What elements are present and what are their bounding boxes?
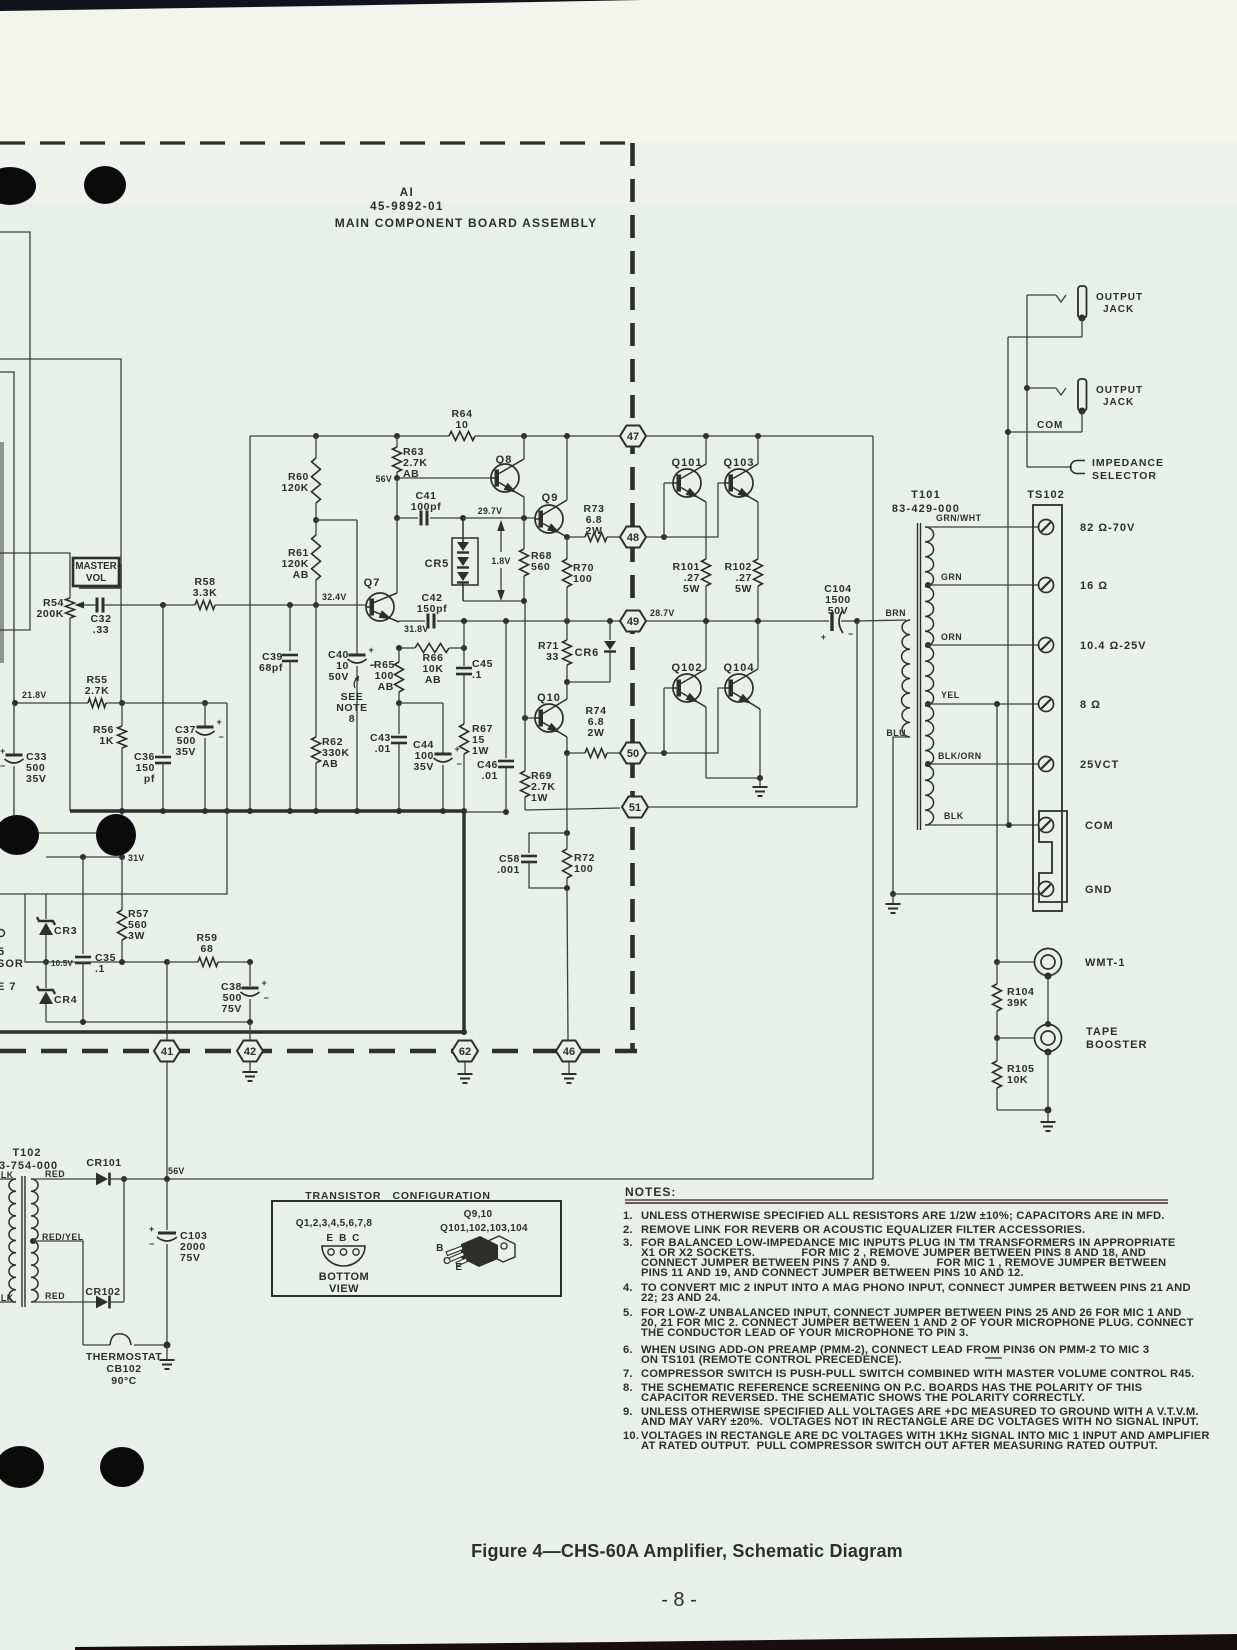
svg-text:51: 51 xyxy=(629,802,641,814)
resistor R71 xyxy=(538,621,572,682)
svg-text:Q10: Q10 xyxy=(537,692,561,704)
jack tape booster xyxy=(997,1025,1147,1056)
wire tap YEL xyxy=(925,690,1038,707)
svg-text:45-9892-01: 45-9892-01 xyxy=(370,201,444,213)
svg-text:CR5: CR5 xyxy=(425,558,449,570)
note 6. xyxy=(623,1344,1149,1366)
A1 board dashed outline top xyxy=(0,141,632,144)
note 10. xyxy=(623,1430,1210,1452)
note 7. xyxy=(623,1368,1194,1380)
capacitor C43 xyxy=(370,703,407,811)
svg-text:CR3: CR3 xyxy=(54,925,77,937)
svg-text:T102: T102 xyxy=(12,1147,41,1159)
svg-text:COM: COM xyxy=(1085,820,1114,832)
capacitor C41 xyxy=(397,490,463,526)
label T102 leads xyxy=(0,1169,84,1303)
A1 board dashed outline bottom xyxy=(0,1049,637,1054)
connector hex 49 xyxy=(620,608,675,632)
wire 28.7V line right xyxy=(646,618,829,624)
capacitor C104 xyxy=(821,583,854,642)
svg-text:46: 46 xyxy=(563,1046,575,1058)
svg-text:AI: AI xyxy=(400,187,415,199)
diode network CR5 xyxy=(425,518,478,601)
wire rectifier join xyxy=(123,1179,125,1302)
svg-text:Q101,102,103,104: Q101,102,103,104 xyxy=(440,1223,528,1234)
svg-text:JACK: JACK xyxy=(1103,397,1134,408)
resistor R73 xyxy=(567,503,620,542)
svg-text:48: 48 xyxy=(627,532,639,544)
TO-220 package drawing xyxy=(446,1236,515,1267)
label 32.4V node xyxy=(322,592,347,602)
svg-text:GRN: GRN xyxy=(941,572,962,582)
label transistor configuration xyxy=(305,1190,491,1202)
svg-text:Q101: Q101 xyxy=(672,457,703,469)
svg-text:BOOSTER: BOOSTER xyxy=(1086,1039,1147,1051)
svg-text:B: B xyxy=(339,1233,347,1244)
page number xyxy=(661,1589,697,1611)
wire tap GRN xyxy=(925,572,1038,588)
wire jack common vertical xyxy=(1005,337,1011,825)
wire C41 to Q9 base xyxy=(460,506,535,521)
wire jack tip bus xyxy=(1024,295,1030,467)
wire Q101 emitter xyxy=(681,488,706,560)
transistor Q101 xyxy=(672,457,703,497)
wire Q102 collector xyxy=(681,621,706,684)
wire Q102 emitter xyxy=(681,693,760,779)
wire Q10 base xyxy=(522,715,535,721)
connector hex 50 xyxy=(620,743,646,764)
wire Q9 collector xyxy=(543,436,567,515)
svg-text:3.3K: 3.3K xyxy=(193,587,218,599)
output jack 2 xyxy=(1008,379,1143,432)
svg-text:8.: 8. xyxy=(623,1382,633,1394)
wire master vol signal line xyxy=(103,602,195,608)
svg-text:RED: RED xyxy=(45,1291,65,1301)
label see note 8 xyxy=(336,676,368,725)
svg-text:E 7: E 7 xyxy=(0,981,17,993)
svg-text:21.8V: 21.8V xyxy=(22,690,47,700)
resistor R61 xyxy=(281,520,320,605)
transformer T101 primary xyxy=(885,608,910,738)
wire 62V line xyxy=(25,959,170,965)
svg-text:CR6: CR6 xyxy=(575,647,599,659)
svg-text:2W: 2W xyxy=(586,525,603,537)
connector hex 48 xyxy=(620,527,646,548)
svg-text:Q102: Q102 xyxy=(672,662,703,674)
wire BLU lead xyxy=(893,737,910,894)
svg-text:3.: 3. xyxy=(623,1237,633,1249)
resistor R70 xyxy=(563,537,595,621)
capacitor C103 xyxy=(149,1179,208,1345)
svg-text:UNLESS OTHERWISE SPECIFIED ALL: UNLESS OTHERWISE SPECIFIED ALL RESISTORS… xyxy=(641,1210,1165,1222)
svg-text:10: 10 xyxy=(456,419,469,431)
wire WMT to booster xyxy=(1045,976,1051,1027)
note 9. xyxy=(623,1406,1199,1428)
wire ground return under holes xyxy=(14,811,122,833)
resistor R62 xyxy=(312,605,350,811)
caption figure title xyxy=(471,1541,903,1561)
transformer T102 primary xyxy=(0,1179,16,1302)
label Q1-8 group xyxy=(296,1218,373,1229)
svg-text:−: − xyxy=(219,732,224,742)
wire hex48 to output bases xyxy=(646,483,725,540)
svg-text:47: 47 xyxy=(627,431,639,443)
svg-text:GRN/WHT: GRN/WHT xyxy=(936,513,982,523)
svg-text:ON TS101 (REMOTE CONTROL PRECE: ON TS101 (REMOTE CONTROL PRECEDENCE). xyxy=(641,1354,902,1366)
label A1 assembly title xyxy=(335,187,598,230)
svg-text:50: 50 xyxy=(627,748,639,760)
zener diode CR3 xyxy=(37,894,77,962)
label compressor fragment xyxy=(0,930,24,994)
node 10.5V xyxy=(43,959,73,968)
potentiometer R54 xyxy=(36,597,96,811)
resistor R68 xyxy=(520,518,553,601)
black scan edge bottom xyxy=(75,1634,1237,1650)
resistor R105 xyxy=(993,1038,1035,1110)
resistor R57 xyxy=(118,857,150,962)
terminal 25VCT xyxy=(1039,757,1120,772)
svg-text:OUTPUT: OUTPUT xyxy=(1096,385,1143,396)
svg-text:IMPEDANCE: IMPEDANCE xyxy=(1092,457,1164,469)
svg-text:B: B xyxy=(436,1243,444,1254)
svg-text:8: 8 xyxy=(349,713,355,725)
wire Q7 emitter xyxy=(374,610,399,622)
impedance selector xyxy=(1027,457,1164,482)
svg-text:Figure 4—CHS-60A Amplifier, Sc: Figure 4—CHS-60A Amplifier, Schematic Di… xyxy=(471,1541,903,1561)
wire ground bus heavy vertical xyxy=(462,811,465,1032)
svg-text:2.7K: 2.7K xyxy=(85,685,110,697)
svg-text:MASTER: MASTER xyxy=(75,561,116,572)
svg-text:SELECTOR: SELECTOR xyxy=(1092,470,1157,482)
diode CR6 xyxy=(567,621,616,682)
svg-text:100: 100 xyxy=(574,863,593,875)
svg-text:ORN: ORN xyxy=(941,632,962,642)
wire left fragment to R54 line xyxy=(0,359,121,703)
wire speaker divider xyxy=(994,704,1034,965)
punch hole row2 left xyxy=(0,815,39,855)
node R60 R61 junction xyxy=(313,517,357,523)
svg-text:OUTPUT: OUTPUT xyxy=(1096,292,1143,303)
svg-text:50V: 50V xyxy=(828,605,848,617)
svg-text:1W: 1W xyxy=(472,745,489,757)
svg-text:AB: AB xyxy=(378,681,394,693)
wire tap GRN/WHT xyxy=(925,513,1038,527)
svg-text:YEL: YEL xyxy=(941,690,960,700)
wire T102 center tap xyxy=(30,1238,83,1345)
svg-text:100: 100 xyxy=(573,573,592,585)
svg-text:AB: AB xyxy=(425,674,441,686)
note 6 PIN36 underline xyxy=(985,1357,1002,1359)
wire ground bus heavy bottom xyxy=(0,1029,467,1035)
transformer T102 secondary xyxy=(31,1179,96,1302)
connector hex 41 xyxy=(154,962,180,1179)
svg-text:.1: .1 xyxy=(472,669,482,681)
transistor Q104 xyxy=(724,662,755,702)
svg-text:100pf: 100pf xyxy=(411,501,441,513)
wire 28.7V line left xyxy=(437,618,620,624)
svg-text:5W: 5W xyxy=(735,583,752,595)
svg-text:1.8V: 1.8V xyxy=(491,556,510,566)
svg-text:RED: RED xyxy=(45,1169,65,1179)
wire ground bus heavy xyxy=(70,808,467,814)
transformer T102 core xyxy=(22,1176,25,1307)
wire Q7 collector xyxy=(374,518,397,603)
wire driver bias chain xyxy=(524,601,526,718)
jack WMT-1 xyxy=(1035,949,1126,980)
wire compressor return xyxy=(0,811,227,894)
wire 56V supply line xyxy=(121,1166,873,1182)
note 2. xyxy=(623,1224,1085,1236)
wire tap BLK/ORN xyxy=(925,751,1038,767)
wire feedback drop xyxy=(872,436,874,1179)
svg-text:90°C: 90°C xyxy=(111,1375,136,1387)
wire Q103 collector xyxy=(733,436,758,479)
capacitor C32 xyxy=(90,598,111,637)
node R65 bottom junction xyxy=(396,700,443,753)
svg-text:C: C xyxy=(443,1256,451,1267)
connector hex 51 xyxy=(622,797,648,818)
wire output rail xyxy=(646,433,873,439)
svg-text:Q9: Q9 xyxy=(542,492,559,504)
wire tap BLK xyxy=(925,811,1038,828)
svg-text:CR102: CR102 xyxy=(85,1286,120,1298)
svg-text:8 Ω: 8 Ω xyxy=(1080,699,1101,711)
svg-text:29.7V: 29.7V xyxy=(478,506,503,516)
wire B+ rail xyxy=(250,433,620,811)
svg-text:THE CONDUCTOR LEAD OF YOUR MIC: THE CONDUCTOR LEAD OF YOUR MICROPHONE TO… xyxy=(641,1327,969,1339)
capacitor C36 xyxy=(134,605,171,811)
svg-text:2.: 2. xyxy=(623,1224,633,1236)
A1 board dashed outline right xyxy=(630,143,635,1051)
svg-text:CAPACITOR REVERSED. THE SCHEMA: CAPACITOR REVERSED. THE SCHEMATIC SHOWS … xyxy=(641,1392,1085,1404)
ground below hex 42 xyxy=(243,1062,258,1081)
terminal strip COM GND strap xyxy=(1039,811,1067,902)
transistor Q9 xyxy=(535,492,563,533)
node R71 CR6 junction xyxy=(564,679,570,685)
wire Q8 emitter xyxy=(499,483,524,519)
TO-39 bottom view outline xyxy=(322,1246,365,1266)
svg-text:82 Ω-70V: 82 Ω-70V xyxy=(1080,522,1135,534)
terminal COM xyxy=(1039,818,1114,833)
svg-text:25VCT: 25VCT xyxy=(1080,759,1119,771)
label T101 xyxy=(892,489,960,515)
svg-text:CR101: CR101 xyxy=(86,1157,121,1169)
svg-text:−: − xyxy=(264,993,269,1003)
connector hex 42 xyxy=(237,1022,263,1062)
svg-text:COM: COM xyxy=(1037,420,1063,431)
transistor Q102 xyxy=(672,662,703,702)
svg-text:3W: 3W xyxy=(128,930,145,942)
svg-text:PINS 11 AND 19, AND CONNECT JU: PINS 11 AND 19, AND CONNECT JUMPER BETWE… xyxy=(641,1267,1024,1279)
svg-text:2W: 2W xyxy=(588,727,605,739)
svg-text:BOTTOM: BOTTOM xyxy=(319,1271,369,1283)
punch hole row2 right xyxy=(96,814,136,856)
capacitor C39 xyxy=(259,605,298,811)
capacitor C45 xyxy=(456,648,493,724)
svg-text:Q104: Q104 xyxy=(724,662,755,674)
svg-text:NOTES:: NOTES: xyxy=(625,1185,676,1199)
black scan edge top xyxy=(0,0,645,11)
resistor R60 xyxy=(281,436,320,520)
wire zobel to hex 46 xyxy=(567,753,568,1040)
svg-text:TAPE: TAPE xyxy=(1086,1026,1119,1038)
TO-220 pin labels xyxy=(436,1243,463,1273)
svg-text:41: 41 xyxy=(161,1046,173,1058)
svg-text:35V: 35V xyxy=(176,746,196,758)
svg-text:10.5V: 10.5V xyxy=(51,959,73,968)
dimension arrow 1.8V xyxy=(491,520,510,601)
svg-text:39K: 39K xyxy=(1007,997,1028,1009)
svg-text:68: 68 xyxy=(201,943,214,955)
label TS102 xyxy=(1027,489,1064,501)
svg-text:22; 23 AND 24.: 22; 23 AND 24. xyxy=(641,1292,721,1304)
svg-text:+: + xyxy=(369,645,374,655)
ground below hex 62 xyxy=(458,1062,473,1083)
svg-text:SOR: SOR xyxy=(0,958,24,970)
resistor R102 xyxy=(724,559,762,621)
svg-text:AND MAY VARY ±20%. VOLTAGES N: AND MAY VARY ±20%. VOLTAGES NOT IN RECTA… xyxy=(641,1416,1199,1428)
resistor R72 xyxy=(563,830,596,891)
punch hole row1 left xyxy=(0,167,36,205)
note 3. xyxy=(623,1237,1176,1279)
resistor R56 xyxy=(93,703,127,811)
label 31.8V node xyxy=(404,624,429,634)
svg-text:+: + xyxy=(262,978,267,988)
svg-text:BLK: BLK xyxy=(944,811,964,821)
terminal strip TS102 body xyxy=(1033,505,1062,911)
terminal 8 ohm xyxy=(1039,697,1102,712)
svg-text:BLK/ORN: BLK/ORN xyxy=(938,751,982,761)
resistor R55 xyxy=(85,674,110,708)
svg-text:6.: 6. xyxy=(623,1344,633,1356)
svg-text:75V: 75V xyxy=(222,1003,242,1015)
component box MASTER VOL xyxy=(73,558,121,588)
svg-text:AT RATED OUTPUT. PULL COMPRES: AT RATED OUTPUT. PULL COMPRESSOR SWITCH … xyxy=(641,1440,1158,1452)
label Q9-10 group xyxy=(440,1209,528,1234)
capacitor C44 xyxy=(413,739,462,811)
svg-text:120K: 120K xyxy=(281,482,309,494)
label 21.8V node xyxy=(22,690,47,700)
thermostat CB102 xyxy=(83,1334,171,1387)
ground tape booster xyxy=(1041,1110,1056,1131)
wire Q101 collector xyxy=(681,436,706,479)
svg-text:560: 560 xyxy=(531,561,550,573)
svg-text:5.: 5. xyxy=(623,1307,633,1319)
diode CR101 xyxy=(86,1157,124,1185)
capacitor C37 xyxy=(175,703,224,811)
svg-text:.01: .01 xyxy=(482,770,498,782)
svg-text:.33: .33 xyxy=(93,624,109,636)
svg-text:10.: 10. xyxy=(623,1430,639,1442)
resistor R58 xyxy=(193,576,218,610)
svg-text:1.: 1. xyxy=(623,1210,633,1222)
svg-text:AB: AB xyxy=(322,758,338,770)
svg-text:5: 5 xyxy=(0,946,5,958)
output jack 1 xyxy=(1008,286,1143,337)
punch hole row3 right xyxy=(100,1447,144,1487)
svg-text:31V: 31V xyxy=(128,853,145,863)
resistor R74 xyxy=(567,705,620,758)
resistor R65 xyxy=(370,648,404,703)
svg-text:WMT-1: WMT-1 xyxy=(1085,957,1125,969)
wire Q104 collector xyxy=(733,621,758,684)
capacitor C38 xyxy=(221,962,269,1022)
component box transistor configuration xyxy=(272,1201,561,1296)
svg-text:pf: pf xyxy=(144,773,155,785)
label COM xyxy=(1037,420,1063,431)
svg-text:150pf: 150pf xyxy=(417,603,447,615)
svg-text:7.: 7. xyxy=(623,1368,633,1380)
wire R58 to Q7 base xyxy=(215,602,366,608)
note 5. xyxy=(623,1307,1194,1339)
wire 56V to C41 xyxy=(394,478,400,521)
wire GND line xyxy=(893,893,1038,895)
svg-text:28.7V: 28.7V xyxy=(650,608,675,618)
svg-text:−: − xyxy=(0,761,5,771)
capacitor C40 xyxy=(328,520,376,811)
wire Q10 collector xyxy=(543,682,567,714)
node 56V xyxy=(375,474,400,484)
svg-text:62: 62 xyxy=(459,1046,471,1058)
label NOTES heading xyxy=(625,1185,1168,1203)
diode CR102 xyxy=(85,1286,124,1308)
svg-text:1K: 1K xyxy=(99,735,114,747)
svg-text:E: E xyxy=(455,1262,462,1273)
resistor R63 xyxy=(393,436,428,480)
wire left fragment to master vol xyxy=(0,553,70,598)
svg-text:16 Ω: 16 Ω xyxy=(1080,580,1108,592)
svg-text:35V: 35V xyxy=(414,761,434,773)
svg-text:C: C xyxy=(352,1233,360,1244)
transistor Q10 xyxy=(535,692,563,732)
svg-text:−: − xyxy=(149,1239,154,1249)
capacitor C33 xyxy=(0,703,47,833)
svg-text:42: 42 xyxy=(244,1046,256,1058)
capacitor C42 xyxy=(399,592,447,629)
wire left fragment box A xyxy=(0,232,30,630)
resistor R59 xyxy=(167,932,253,967)
svg-text:VOL: VOL xyxy=(86,573,106,584)
svg-text:Q7: Q7 xyxy=(364,577,381,589)
svg-text:CB102: CB102 xyxy=(106,1363,141,1375)
wire Q103 emitter xyxy=(733,488,758,560)
svg-text:+: + xyxy=(455,744,460,754)
resistor R67 xyxy=(460,723,494,811)
transformer T101 secondary xyxy=(925,527,934,825)
wire hex51 to C104 junction xyxy=(649,621,857,807)
connector hex 46 xyxy=(556,1041,582,1062)
terminal 82 ohm xyxy=(1039,520,1136,535)
svg-text:CR4: CR4 xyxy=(54,994,77,1006)
svg-text:T101: T101 xyxy=(911,489,941,501)
resistor R64 xyxy=(449,408,475,441)
svg-text:.001: .001 xyxy=(497,864,520,876)
svg-text:56V: 56V xyxy=(168,1166,185,1176)
svg-text:68pf: 68pf xyxy=(259,662,283,674)
TO-39 pin labels xyxy=(326,1233,360,1244)
note 8. xyxy=(623,1382,1143,1404)
svg-text:+: + xyxy=(149,1224,154,1234)
svg-text:COMPRESSOR SWITCH IS PUSH-PULL: COMPRESSOR SWITCH IS PUSH-PULL SWITCH CO… xyxy=(641,1368,1194,1380)
svg-text:REMOVE LINK FOR REVERB OR ACOU: REMOVE LINK FOR REVERB OR ACOUSTIC EQUAL… xyxy=(641,1224,1085,1236)
transistor Q103 xyxy=(724,457,755,497)
punch hole row1 right xyxy=(84,166,126,204)
ground T101 BLU xyxy=(886,891,901,913)
svg-text:75V: 75V xyxy=(180,1252,200,1264)
wire CR5 bottom tie xyxy=(463,598,527,604)
wire R66 row xyxy=(396,621,467,651)
wire 31V line xyxy=(46,853,145,863)
